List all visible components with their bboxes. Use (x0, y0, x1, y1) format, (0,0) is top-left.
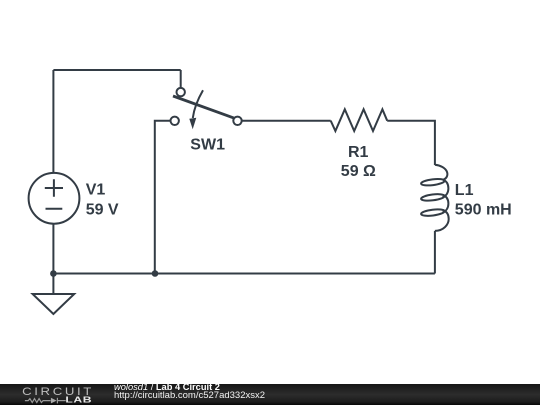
voltage source V1 (29, 173, 80, 224)
wire: V1 bottom to ground rail (52, 224, 54, 274)
svg-text:59 V: 59 V (86, 202, 119, 219)
switch common terminal (177, 88, 185, 96)
switch SW1 blade (173, 96, 235, 118)
wire: top rail (53, 69, 180, 71)
svg-text:SW1: SW1 (190, 136, 225, 153)
resistor R1 (331, 109, 388, 131)
svg-text:V1: V1 (86, 182, 106, 199)
wire: switch right throw to resistor (242, 120, 331, 122)
V1 minus sign (46, 208, 63, 210)
switch SW1 arrow arc (193, 90, 203, 118)
wire: bottom rail (53, 273, 435, 275)
switch arrowhead (189, 118, 196, 130)
switch right throw terminal (233, 117, 241, 125)
junction dot V1/ground (50, 270, 57, 277)
logo resistor squiggle (25, 398, 66, 404)
wire: switch stem (180, 70, 182, 88)
inductor L1 (421, 165, 449, 231)
logo diode (51, 398, 57, 404)
svg-text:L1: L1 (455, 182, 474, 199)
wire: resistor to inductor corner (387, 121, 435, 165)
switch left throw terminal (171, 117, 179, 125)
wire: left rail from top corner down to V1 top (52, 70, 54, 173)
svg-text:590 mH: 590 mH (455, 201, 512, 218)
wire: inductor bottom to rail (434, 231, 436, 274)
wire: switch left throw branch (155, 121, 171, 274)
svg-text:LAB: LAB (65, 395, 92, 405)
junction dot switch branch (152, 270, 159, 277)
footer logo (22, 385, 94, 405)
V1 plus sign (45, 179, 63, 196)
ground (33, 274, 75, 315)
svg-text:R1: R1 (348, 144, 369, 161)
svg-text:59 Ω: 59 Ω (341, 163, 376, 180)
